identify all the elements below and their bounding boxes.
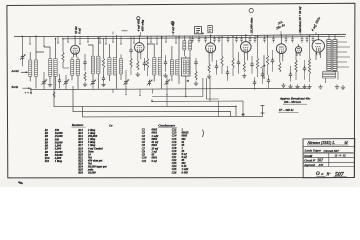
inductor T6 primary [170, 60, 173, 75]
ground G1 [48, 82, 52, 86]
potentiometer VR1 [263, 55, 265, 78]
mark bus dash [113, 31, 128, 35]
wire C2 drop [43, 72, 45, 89]
node V2 top [139, 35, 141, 37]
fuse box F1 [208, 26, 212, 33]
trimmer C13 [164, 79, 169, 85]
svg-text:C26: C26 [172, 171, 177, 174]
inductor L1 under V1 [71, 60, 74, 76]
resistor R12 [256, 58, 258, 69]
wire T6 leads [172, 37, 179, 84]
wire C19 tail [262, 68, 264, 84]
svg-text:Airzone (1931) L: Airzone (1931) L [307, 141, 336, 145]
wire V2 cathode [138, 55, 141, 61]
node V5 top [281, 34, 283, 36]
wire C9 [130, 36, 132, 58]
ground G4 [136, 72, 140, 76]
svg-text:Earth: Earth [11, 86, 19, 89]
wire V1 plate [74, 36, 76, 43]
wire top bus B [63, 36, 345, 39]
wire C3 drop [59, 74, 61, 89]
wire stub tails [113, 89, 167, 95]
node bus junction 12 [257, 36, 258, 37]
inductor L3 [120, 59, 123, 75]
tuning capacitor C2 [41, 79, 46, 85]
rectifier V6 80 [295, 44, 302, 56]
capacitor C10 [143, 61, 146, 67]
svg-text:1 Meg: 1 Meg [55, 160, 63, 163]
wire V4 legs [244, 55, 247, 62]
wire C14 [195, 58, 197, 71]
wire V3 legs [209, 56, 212, 64]
wire return junction x218 [218, 101, 220, 116]
wire V4 plate [245, 35, 247, 39]
wire V5 plate [280, 35, 282, 41]
wire R10 [232, 37, 234, 76]
svg-text:Cw: Cw [109, 124, 113, 127]
wire C6 tail [92, 86, 94, 89]
capacitor C16 [226, 70, 229, 76]
wire L1 leads [72, 57, 78, 89]
capacitor C21 [289, 72, 292, 78]
wire C21 [290, 66, 292, 82]
node V1 top [74, 36, 76, 38]
svg-text:200 – 550 kc/s: 200 – 550 kc/s [283, 100, 302, 104]
ground G12 [302, 84, 306, 88]
parts list condensers col1 [142, 129, 159, 163]
node junction J2 [235, 106, 236, 107]
tube V1 58 [71, 43, 80, 58]
inductor T4 secondary [113, 58, 116, 75]
svg-text:O: O [316, 171, 320, 177]
wire V7 legs [316, 52, 321, 60]
svg-text:IF – 465 kc: IF – 465 kc [278, 108, 294, 112]
node earth junction [28, 87, 30, 89]
inductor T3 primary [91, 56, 94, 74]
wire heater bus [30, 88, 310, 89]
resistor R1 [62, 52, 64, 62]
power transformer T7 secondary [333, 40, 337, 71]
wire B- return 4 [83, 105, 265, 117]
capacitor C23 [253, 80, 256, 86]
wire R12 [257, 36, 259, 77]
wire T5 leads [147, 37, 161, 88]
tube V4 2A6 [241, 39, 252, 55]
wire return A [152, 78, 203, 97]
node bus junction 6 [116, 35, 117, 36]
wire C8 [125, 70, 127, 89]
wire B- return 2 [73, 86, 231, 117]
resistor R3 [102, 58, 104, 68]
parts list resistors col2 [78, 129, 107, 175]
ground G8 [242, 74, 246, 78]
wire T2 leads [44, 39, 56, 89]
tube V5 2A5 [276, 41, 286, 56]
resistor R7 [195, 71, 197, 80]
border frame [7, 3, 355, 178]
ground G13 [307, 84, 311, 88]
resistor R8 [208, 64, 210, 73]
power transformer T7 primary [327, 40, 331, 71]
capacitor C17 [237, 60, 240, 66]
capacitor C12 [164, 60, 167, 66]
svg-text:R11: R11 [45, 160, 50, 163]
ground G6 [194, 81, 198, 85]
wire bus stubs left [29, 37, 176, 47]
node bus junction 14 [309, 35, 310, 36]
resistor R17 on return [53, 92, 55, 98]
wire C1 drop [22, 36, 24, 66]
capacitor C15 [215, 64, 218, 70]
svg-text:6 mf: 6 mf [78, 27, 82, 34]
wire T3 leads [88, 38, 98, 89]
wire C15 [216, 60, 218, 75]
ground G5 [163, 73, 167, 77]
node bus junction 5 [98, 37, 99, 38]
wire return C [209, 78, 211, 102]
resistor R9 [221, 56, 223, 66]
ground G9 [281, 83, 285, 87]
svg-text:ld: ld [345, 141, 348, 145]
trimmer C8 [123, 79, 128, 85]
ground G3 [101, 82, 105, 86]
wire B- return 1 [54, 70, 236, 116]
svg-text:Circuit 507: Circuit 507 [324, 149, 340, 153]
wire R13 [267, 36, 269, 75]
svg-text:Resistor: Resistor [72, 123, 84, 127]
wire C4 [65, 75, 67, 89]
svg-text:Circuit Nº: Circuit Nº [304, 159, 315, 162]
inductor T6 secondary [176, 60, 179, 75]
tuning capacitor C6 [90, 80, 95, 86]
node bus junction 3 [55, 38, 56, 39]
trimmer C1 [20, 54, 25, 60]
inductor T2 secondary [54, 59, 57, 77]
tuning capacitor C4 [63, 79, 68, 85]
capacitor C5 [83, 60, 86, 66]
wire top bus A [14, 34, 346, 36]
ground G14 [318, 85, 322, 89]
tube V3 58 [206, 40, 216, 56]
node bus junction 10 [221, 36, 222, 37]
node bus junction 4 [62, 38, 63, 39]
resistor R10 [232, 58, 234, 68]
wire R1 [63, 39, 69, 68]
capacitor row under bus [191, 36, 314, 43]
svg-text:Mershon 30 + 30 mf: Mershon 30 + 30 mf [298, 6, 302, 34]
wire T1 top leads [30, 36, 44, 60]
svg-text:2 mf 450: 2 mf 450 [171, 21, 175, 34]
node bus junction 7 [147, 37, 148, 38]
wire R4 tail [130, 67, 132, 75]
wire earth lead [23, 88, 32, 92]
ground G10 [288, 84, 292, 88]
inductor L2 under V1 [76, 60, 79, 76]
wire C23 [254, 77, 256, 90]
capacitor C9 [129, 48, 132, 54]
transformer T8 box [182, 58, 191, 76]
resistor R4 [130, 58, 132, 67]
svg-text:507: 507 [335, 172, 345, 178]
svg-text:Condensers: Condensers [158, 124, 176, 128]
wire C18 [251, 56, 253, 74]
node pot junction [263, 77, 264, 78]
svg-text:Approved: Approved [303, 164, 315, 167]
wire return B [206, 78, 218, 99]
wire T4 leads [109, 36, 116, 89]
node bus junction 8 [161, 37, 162, 38]
ground G16 [341, 85, 345, 89]
wire C13 tail [166, 76, 168, 89]
svg-text:Aerial: Aerial [11, 70, 19, 73]
ground G15 [335, 85, 339, 89]
svg-text:C11: C11 [142, 160, 147, 163]
wire V2 plate [138, 36, 140, 40]
wire T1 bottom lead [30, 76, 36, 88]
wire T7 taps [337, 42, 350, 67]
inductor T1 secondary [34, 60, 37, 76]
resistor R5 [137, 61, 139, 70]
svg-text:Louis Super: Louis Super [304, 149, 322, 153]
svg-text:Nº: Nº [326, 172, 332, 176]
node bus junction 2 [35, 36, 36, 37]
inductor T5 secondary [158, 58, 161, 76]
resistor R13 [266, 55, 268, 65]
resistor R6 [146, 58, 148, 68]
wire L4 leads [326, 72, 339, 84]
wire C17 [238, 52, 240, 74]
svg-text:R26: R26 [78, 172, 83, 175]
capacitor C20 [271, 58, 274, 64]
svg-text:25,000 ohm: 25,000 ohm [250, 17, 254, 34]
ground G2 [83, 82, 87, 86]
wire C22 [304, 60, 306, 80]
node bus junction 1 [21, 36, 22, 37]
resistor R2 [84, 72, 86, 81]
inductor T1 primary [29, 60, 32, 76]
wire bias bus [152, 100, 243, 117]
wire aerial lead [21, 71, 28, 73]
wire V3 plate [210, 35, 212, 40]
shield can SW1 [195, 27, 202, 34]
wire C12 [165, 55, 167, 72]
tube V7 45 [312, 37, 324, 55]
speaker field coil L4 [323, 72, 336, 79]
wire RFC leads [184, 36, 190, 58]
wire T8 leads [185, 56, 187, 97]
svg-text:ct: ct [321, 172, 323, 176]
wire R15 [295, 52, 297, 80]
wire C5 [84, 54, 86, 71]
capacitor C14 [194, 60, 197, 66]
node V3 top [210, 35, 212, 37]
inductor RFC2 [189, 41, 192, 51]
wire T7 top lead [329, 34, 335, 39]
inductor RFC1 [183, 41, 186, 51]
resistor R15 [295, 60, 297, 72]
node bus junction 13 [267, 36, 268, 37]
capacitor C19 [261, 72, 264, 78]
node bus junction 11 [232, 36, 233, 37]
node junction J1 [151, 100, 153, 102]
wire C24 [268, 75, 270, 89]
wire R16 [309, 36, 311, 82]
resistor R11 [243, 62, 245, 72]
tuning capacitor C11 [147, 80, 152, 86]
parts list resistors col1 [45, 129, 63, 163]
inductor T4 primary [108, 58, 111, 75]
title block box [303, 139, 355, 178]
inductor T3 secondary [97, 56, 100, 74]
resistor R16 [308, 58, 310, 74]
wire C20 [272, 50, 274, 72]
svg-text:10,000: 10,000 [88, 172, 96, 175]
wire R3 [103, 38, 105, 76]
svg-text:0 005: 0 005 [182, 171, 189, 174]
capacitor C3 [58, 78, 61, 84]
wire R9 [221, 37, 223, 74]
wire C10 [144, 58, 146, 71]
wire return junction x167 [166, 95, 168, 107]
resistor R14 [279, 63, 281, 73]
inductor T2 primary [49, 59, 52, 77]
node bus junction 9 [178, 36, 179, 37]
capacitor C18 [250, 62, 253, 68]
wire V5 legs [280, 56, 283, 62]
tube V2 57 [135, 40, 145, 55]
inductor T5 primary [153, 58, 156, 76]
transformer T8 windings [183, 60, 185, 74]
node T8 junction [185, 96, 186, 97]
capacitor C7 [102, 76, 105, 82]
capacitor C22 [303, 66, 306, 72]
svg-text:+ +: + + [25, 91, 30, 95]
capacitor C24 [267, 78, 270, 84]
wire label ticks [141, 31, 317, 36]
ground G11 [295, 84, 299, 88]
wire L3 leads [120, 55, 122, 81]
parts list condensers col2 [172, 129, 189, 175]
wire C16 [227, 66, 229, 81]
svg-text:450 wkg: 450 wkg [140, 20, 144, 33]
list brace [202, 130, 205, 138]
svg-text:12 · 4 · 32: 12 · 4 · 32 [335, 155, 347, 158]
node V4 top [245, 34, 247, 36]
ground G7 [207, 74, 211, 78]
wire V7 plate [317, 34, 319, 37]
wire R6 [147, 37, 149, 76]
mark bottom-left blot [18, 181, 24, 185]
